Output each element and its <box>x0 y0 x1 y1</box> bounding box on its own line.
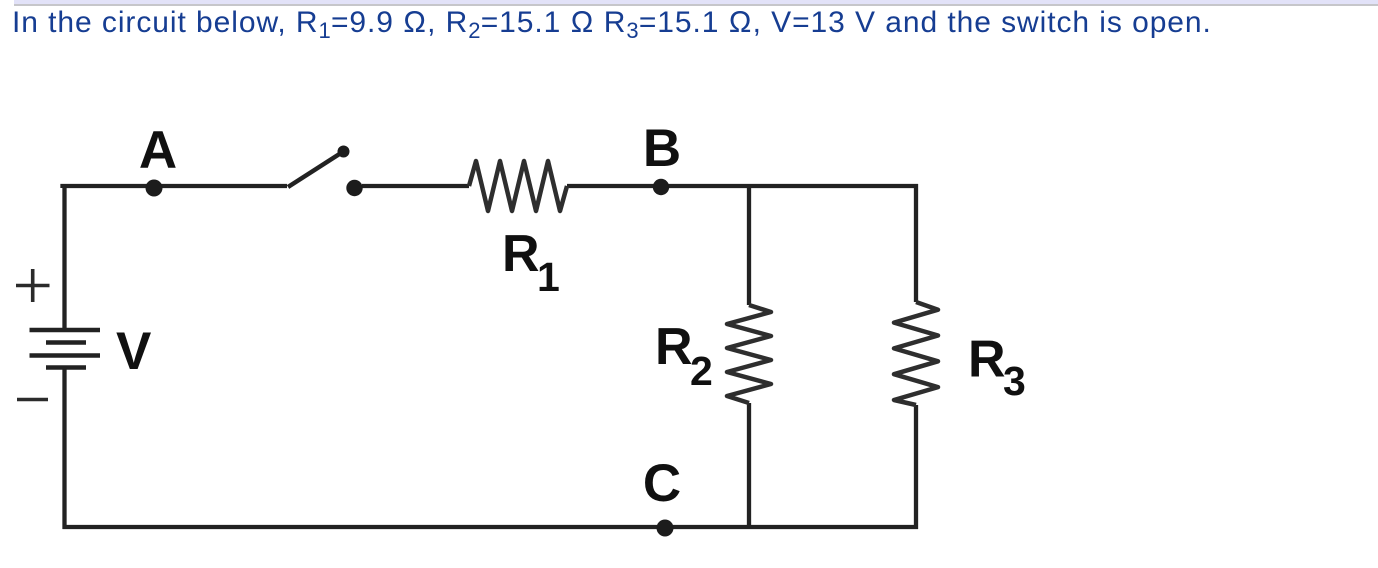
switch S1 pivot dot <box>346 180 362 196</box>
svg-text:C: C <box>643 454 681 513</box>
svg-text:2: 2 <box>690 348 713 394</box>
wire: R1 to top-right corner <box>567 184 918 188</box>
wire: R2 branch lower <box>747 403 751 529</box>
switch S1 lever <box>288 153 341 187</box>
svg-text:R: R <box>502 225 540 283</box>
svg-text:3: 3 <box>1003 358 1026 404</box>
wire: left rail lower (battery bottom to bottom rail) <box>62 368 66 530</box>
battery V plate long top <box>30 328 101 333</box>
svg-text:V: V <box>116 322 151 381</box>
resistor R3 (zigzag) <box>894 302 938 405</box>
node B dot <box>653 179 669 195</box>
wire: R2 branch upper <box>747 186 751 305</box>
svg-text:A: A <box>139 121 177 180</box>
minus polarity sign <box>17 398 48 402</box>
heading text <box>12 8 1212 38</box>
battery V plate short bottom <box>46 365 86 370</box>
switch S1 tip dot <box>338 146 350 158</box>
plus polarity sign <box>16 269 50 302</box>
wire: switch to R1 <box>362 184 469 188</box>
battery V plate long lower <box>30 353 101 358</box>
svg-text:R: R <box>655 318 693 376</box>
resistor R2 (zigzag) <box>727 305 771 403</box>
wire: top-left from corner to switch <box>63 186 288 188</box>
wire: left rail upper (corner to battery top plate) <box>62 184 66 330</box>
svg-text:R: R <box>968 331 1006 389</box>
resistor R1 (zigzag) <box>469 161 567 211</box>
svg-text:B: B <box>643 119 681 178</box>
node C dot <box>657 520 674 537</box>
wire: bottom rail <box>63 525 919 529</box>
battery V plate short upper <box>46 340 86 345</box>
wire: right rail below R3 <box>914 405 918 529</box>
top panel edge <box>14 0 1378 6</box>
svg-text:1: 1 <box>537 254 560 300</box>
wire: right rail above R3 <box>914 184 918 302</box>
node A dot <box>146 180 163 197</box>
